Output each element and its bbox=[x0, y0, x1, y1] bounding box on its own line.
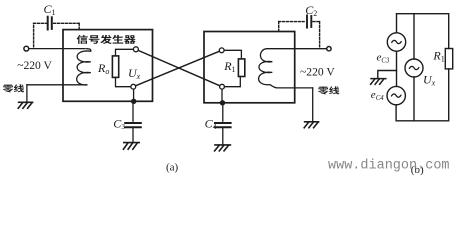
source U_x bbox=[405, 59, 423, 77]
wire: mid-node to ground stub bbox=[378, 71, 397, 78]
wire: crossing lead (gen bottom to meter top) bbox=[136, 51, 220, 86]
wire: chassis node to C4 bbox=[222, 103, 224, 121]
svg-text:www.diangon.com: www.diangon.com bbox=[328, 159, 450, 174]
wire: bottom terminal to chassis node bbox=[133, 89, 135, 101]
wire: chassis node to C3 bbox=[132, 101, 134, 121]
wire: bottom terminal to meter chassis bbox=[221, 89, 223, 103]
equivalent circuit (b): outer loop bbox=[378, 14, 453, 121]
ground: below C3 bbox=[123, 143, 139, 150]
terminal: generator output top bbox=[133, 47, 138, 52]
ground: left neutral earth bbox=[18, 102, 32, 108]
wire: crossing lead (gen top to meter bottom) bbox=[138, 50, 220, 85]
ground: right neutral earth bbox=[304, 122, 318, 128]
wire: R0 top to output terminal bbox=[116, 49, 134, 56]
wire: live terminal to transformer T1 primary top bbox=[29, 48, 85, 50]
wire: top terminal to R1 bbox=[224, 50, 241, 59]
source e_C3 bbox=[387, 33, 405, 51]
junction: generator chassis node bbox=[131, 99, 136, 104]
inductor T1 primary winding bbox=[27, 49, 91, 85]
wire: R0 bottom to output terminal bbox=[116, 77, 131, 86]
source e_C4 bbox=[387, 86, 405, 104]
wire: neutral drop to ground bbox=[26, 85, 28, 102]
wire: bottom terminal to R1 bbox=[224, 77, 240, 87]
tilde marks inside sources bbox=[392, 40, 419, 97]
box: signal generator U1 bbox=[63, 30, 153, 102]
label: signal generator title bbox=[77, 35, 136, 44]
wire: C4 to ground bbox=[222, 128, 224, 144]
wire: C3 to ground bbox=[132, 128, 134, 142]
resistor R0 bbox=[112, 56, 118, 78]
capacitor C2 (stray, dashed leads) bbox=[279, 22, 320, 47]
wire: right neutral drop to ground bbox=[312, 88, 314, 121]
terminal: meter input top bbox=[219, 48, 224, 53]
terminal: meter input bottom bbox=[220, 84, 225, 89]
inductor T2 winding with wire to right live terminal bbox=[259, 49, 327, 88]
label: neutral (left) bbox=[3, 84, 24, 92]
ground: below C4 bbox=[215, 145, 231, 151]
ground: equivalent circuit reference bbox=[371, 79, 386, 85]
box: millivoltmeter U2 bbox=[204, 32, 295, 103]
svg-text:~220 V: ~220 V bbox=[17, 59, 52, 72]
terminal: right mains live bbox=[327, 47, 331, 51]
resistor R1 bbox=[238, 59, 244, 77]
resistor RL bbox=[445, 49, 452, 69]
label: neutral (right) bbox=[318, 86, 339, 94]
capacitor C1 (stray, dashed leads) bbox=[34, 23, 80, 47]
capacitor C4 bbox=[215, 123, 231, 127]
terminal: generator output bottom bbox=[131, 84, 136, 89]
svg-text:~220 V: ~220 V bbox=[300, 65, 335, 78]
junction: meter chassis node bbox=[220, 100, 225, 105]
svg-text:(a): (a) bbox=[166, 161, 179, 173]
capacitor C3 bbox=[125, 123, 141, 127]
terminal: left mains live bbox=[24, 46, 29, 51]
